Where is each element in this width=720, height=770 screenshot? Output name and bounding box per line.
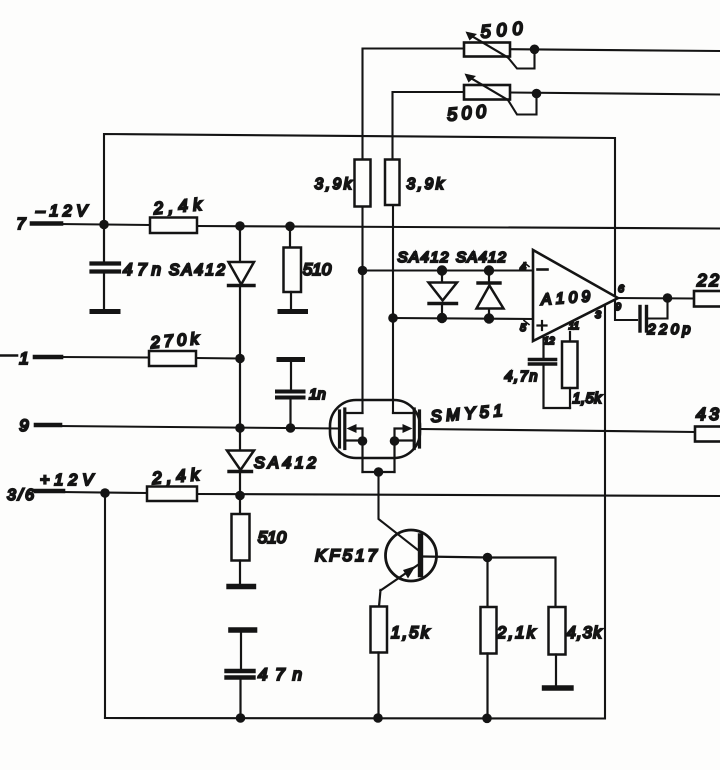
svg-text:1,5k: 1,5k — [391, 624, 430, 642]
svg-text:1,5k: 1,5k — [573, 391, 603, 407]
wire pot2 wiper tail — [508, 94, 537, 115]
wire pot1 left feed — [363, 49, 465, 160]
wire -12V rail right to edge — [197, 226, 720, 229]
resistor 2,4k upper — [150, 218, 197, 234]
wire pot1 wiper tail — [508, 49, 535, 69]
node bottom rail 2,1k — [482, 714, 492, 724]
ground bar 510 lower — [229, 584, 254, 589]
svg-text:2,4k: 2,4k — [152, 195, 204, 218]
capacitor C 1n — [277, 360, 304, 429]
svg-text:9: 9 — [19, 416, 29, 435]
wire +12V left vertical down — [104, 493, 106, 718]
wire diode chain vertical 270k to gate line — [239, 359, 241, 429]
diode D2 SA412 left of pair — [429, 265, 458, 323]
wire right gate line to edge resistor — [420, 429, 695, 432]
wire diode line upper — [363, 269, 534, 271]
svg-text:SMY51: SMY51 — [430, 402, 503, 426]
svg-text:11: 11 — [569, 321, 579, 332]
terminal 1 stub bar — [35, 355, 61, 360]
wire 270k line — [59, 356, 149, 359]
resistor 510 lower — [232, 496, 250, 585]
svg-text:3/6: 3/6 — [7, 487, 34, 504]
op-amp U1 A109 — [524, 250, 618, 341]
capacitor C 47n lower — [227, 630, 255, 718]
svg-text:4: 4 — [520, 261, 526, 273]
wire top feedback run from -12V node to 220p — [104, 134, 637, 320]
svg-text:2,1k: 2,1k — [496, 624, 536, 642]
resistor 1,5k emitter — [371, 607, 388, 719]
svg-text:1n: 1n — [309, 386, 326, 403]
node -12V junction — [99, 220, 109, 230]
wire -12V rail left — [59, 224, 150, 225]
svg-text:–12V: –12V — [35, 203, 88, 220]
svg-text:4,7n: 4,7n — [505, 369, 538, 385]
terminal 3/6 stub bar — [36, 489, 63, 494]
ground bar 510 upper — [280, 309, 306, 314]
node bottom rail 47n — [236, 713, 246, 723]
svg-text:4,3k: 4,3k — [567, 624, 603, 642]
diode D4 SA412 lower — [227, 428, 254, 496]
wire +12V rail left — [61, 492, 147, 493]
node 270k diode junction — [235, 354, 245, 364]
svg-text:KF517: KF517 — [315, 546, 378, 565]
node 3,9k left bottom — [358, 266, 368, 276]
resistor 270k — [149, 351, 196, 366]
wire +12V rail right to edge — [197, 494, 720, 496]
wire 3,9k right lead down to mosfet drain — [392, 205, 394, 413]
diode D3 SA412 right of pair — [477, 265, 504, 323]
svg-text:220p: 220p — [647, 322, 691, 338]
svg-text:43: 43 — [696, 404, 719, 424]
resistor 510 upper — [284, 226, 302, 309]
wire 3,9k left lead down to mosfet drain — [361, 206, 363, 413]
resistor 3,9k left — [355, 160, 371, 207]
node 2,4k right junction — [235, 221, 245, 231]
svg-text:SA412: SA412 — [254, 455, 316, 472]
transistor Q1 KF517 — [379, 530, 488, 607]
svg-text:47n: 47n — [258, 665, 302, 684]
svg-text:SA412: SA412 — [456, 249, 507, 266]
resistor 2,1k — [481, 607, 497, 718]
svg-text:47n: 47n — [123, 260, 161, 279]
svg-text:3,9k: 3,9k — [407, 176, 445, 193]
svg-text:510: 510 — [258, 528, 287, 547]
svg-text:3,9k: 3,9k — [315, 176, 353, 193]
svg-text:12: 12 — [543, 336, 555, 347]
op-amp pin 11 stub and resistor 1,5k — [562, 332, 578, 408]
wire collector node — [483, 553, 556, 607]
wire gate line 9 — [58, 426, 339, 429]
svg-text:+12V: +12V — [40, 472, 94, 489]
resistor 2,4k lower — [147, 487, 197, 502]
ground bar 47n upper — [92, 309, 118, 314]
svg-text:6: 6 — [618, 283, 624, 295]
terminal 7 stub bar — [32, 221, 61, 226]
resistor 22.. right edge — [694, 291, 720, 307]
wire 220p right leg up to output — [647, 298, 668, 319]
capacitor C 47n upper — [92, 225, 120, 309]
svg-text:1: 1 — [19, 349, 28, 368]
op-amp pin 12 stub and capacitor 4,7n — [530, 336, 571, 408]
svg-text:500: 500 — [480, 18, 524, 42]
node 510 top junction — [285, 222, 295, 232]
node +12V vertical junction — [100, 488, 110, 498]
diode D1 SA412 upper — [229, 226, 255, 359]
node bottom rail 1,5k — [373, 713, 383, 723]
wire pot1 right to edge — [510, 49, 720, 51]
resistor 4,3k — [549, 607, 566, 685]
svg-text:SA412: SA412 — [169, 262, 225, 279]
resistor 43.. right edge — [695, 427, 720, 442]
wire diode line lower to +input — [393, 318, 533, 319]
svg-text:2,4k: 2,4k — [150, 465, 201, 488]
potentiometer P1 500 — [464, 32, 539, 58]
node diode bottom junction — [235, 491, 245, 501]
node 3,9k right bottom — [388, 313, 398, 323]
ground bar 4,3k — [545, 685, 572, 690]
svg-text:SA412: SA412 — [398, 249, 450, 266]
node output junction — [663, 293, 673, 303]
terminal 9 stub bar — [36, 423, 60, 428]
capacitor C 220p — [640, 307, 647, 332]
potentiometer P2 500 — [464, 74, 541, 101]
wire pot2 right to edge — [510, 93, 720, 95]
resistor 3,9k right — [385, 160, 400, 206]
svg-text:3: 3 — [595, 309, 601, 321]
svg-text:500: 500 — [446, 101, 487, 124]
wire terminal 1 edge lead — [0, 354, 17, 357]
wire 270k to node — [196, 357, 240, 360]
dual mosfet SMY51 — [330, 400, 420, 477]
svg-text:270k: 270k — [149, 330, 200, 352]
svg-text:5: 5 — [520, 322, 526, 334]
wire pot2 left feed — [393, 92, 465, 160]
wire op-amp output — [616, 297, 694, 300]
svg-text:510: 510 — [303, 260, 332, 279]
svg-text:9: 9 — [615, 301, 621, 313]
wire mosfet source to transistor base — [379, 472, 419, 550]
node gate line diode junction — [235, 423, 245, 433]
wire bottom rail — [105, 306, 605, 719]
svg-text:7: 7 — [17, 216, 27, 233]
svg-text:22: 22 — [696, 270, 719, 290]
node gate line 1n junction — [286, 423, 296, 433]
